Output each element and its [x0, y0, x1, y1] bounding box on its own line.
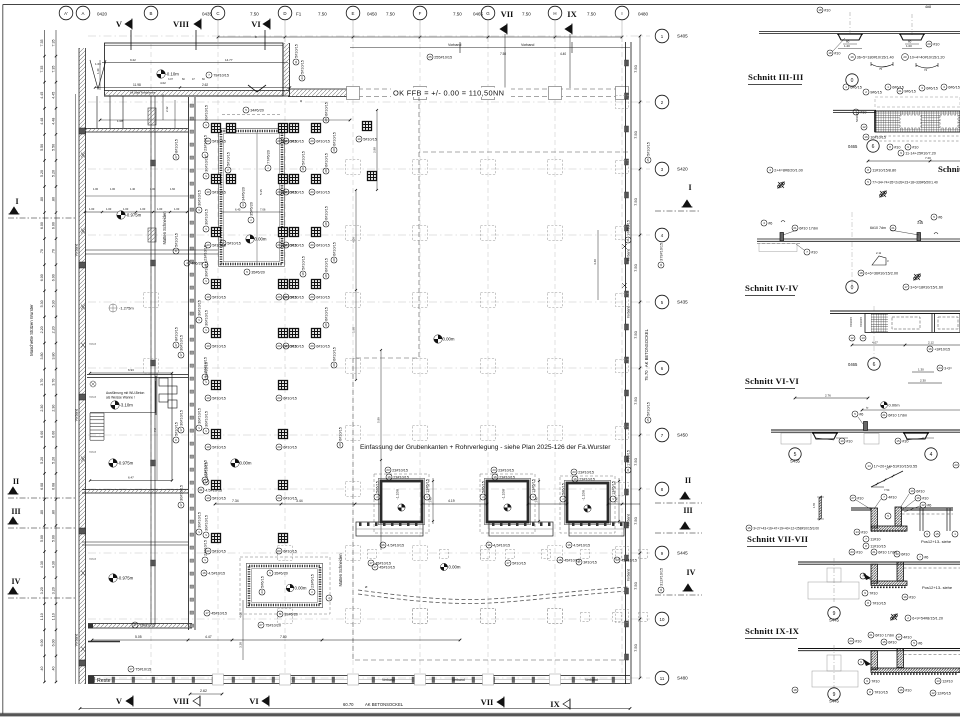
svg-text:7#10: 7#10 — [871, 679, 879, 683]
svg-text:2.62: 2.62 — [200, 689, 207, 693]
S9 centerline — [833, 645, 835, 688]
benchmark 0.00m pit1 — [246, 235, 267, 243]
svg-text:11#10: 11#10 — [870, 537, 880, 541]
svg-text:7#10: 7#10 — [869, 591, 877, 595]
pipe run (dashed) — [358, 587, 628, 600]
benchmark -1.275m — [109, 304, 117, 312]
svg-text:28: 28 — [324, 323, 328, 327]
svg-text:I: I — [15, 197, 18, 206]
svg-text:10: 10 — [206, 344, 210, 348]
svg-text:60: 60 — [846, 40, 850, 44]
S4 label 7 — [804, 249, 818, 255]
svg-text:6#10/15: 6#10/15 — [332, 347, 336, 361]
svg-text:Schnitt: Schnitt — [938, 164, 960, 174]
svg-text:7.50: 7.50 — [633, 396, 638, 405]
svg-text:2.76: 2.76 — [825, 394, 831, 398]
svg-text:16: 16 — [928, 347, 932, 351]
svg-text:23#10/15: 23#10/15 — [578, 470, 594, 474]
svg-text:5.05: 5.05 — [135, 635, 142, 639]
svg-text:S445: S445 — [829, 699, 839, 704]
svg-text:7.50: 7.50 — [587, 12, 596, 17]
svg-text:7.54: 7.54 — [884, 488, 890, 492]
S7 pit section — [851, 507, 871, 509]
svg-text:1.48: 1.48 — [615, 497, 619, 503]
svg-text:312#10/15: 312#10/15 — [659, 568, 663, 586]
svg-text:1.00: 1.00 — [140, 207, 146, 211]
svg-text:6#10 17dm: 6#10 17dm — [799, 226, 818, 230]
svg-text:5#10/15: 5#10/15 — [512, 561, 526, 565]
grid bubbles A'-I (top) — [59, 6, 73, 20]
svg-text:13#6/15: 13#6/15 — [611, 481, 615, 495]
svg-text:13#6/15: 13#6/15 — [531, 479, 535, 493]
svg-text:18: 18 — [859, 271, 863, 275]
svg-text:16: 16 — [916, 496, 920, 500]
svg-text:9: 9 — [833, 611, 836, 617]
svg-text:6#10 7dm: 6#10 7dm — [870, 226, 886, 230]
svg-text:Verband: Verband — [452, 678, 465, 682]
annex right labels — [293, 44, 299, 65]
pit P2 with labels — [240, 557, 330, 614]
svg-text:20: 20 — [338, 443, 342, 447]
svg-text:12#6/15: 12#6/15 — [937, 691, 951, 695]
svg-text:31: 31 — [294, 60, 298, 64]
svg-text:7.50: 7.50 — [633, 516, 638, 525]
svg-text:8#10/15: 8#10/15 — [174, 327, 178, 341]
svg-text:30#10/15: 30#10/15 — [197, 512, 201, 528]
svg-text:9#6/15: 9#6/15 — [904, 89, 916, 93]
S7 label 15 long — [746, 525, 819, 531]
svg-text:77+34+74+35=2x39+23+18+339#6/2: 77+34+74+35=2x39+23+18+339#6/20/1.40 — [872, 180, 938, 184]
svg-text:6.08: 6.08 — [40, 483, 44, 490]
svg-text:6.93: 6.93 — [128, 368, 134, 372]
svg-text:23: 23 — [850, 550, 854, 554]
bottom exterior wall band — [88, 675, 630, 677]
svg-text:20: 20 — [310, 190, 314, 194]
rebar mat labels — [205, 138, 226, 144]
svg-text:Schnitt III-III: Schnitt III-III — [748, 72, 804, 82]
svg-text:Matten Schneiden: Matten Schneiden — [162, 211, 167, 245]
S4 big circle 0 — [846, 281, 858, 293]
svg-text:2.62: 2.62 — [202, 83, 208, 87]
svg-text:45#10/15: 45#10/15 — [379, 565, 395, 569]
svg-text:0.00m: 0.00m — [889, 403, 901, 408]
svg-text:H0608: H0608 — [89, 451, 97, 454]
svg-text:A: A — [82, 11, 85, 16]
svg-text:6#10/15: 6#10/15 — [283, 549, 297, 553]
svg-text:4.40: 4.40 — [593, 259, 597, 265]
svg-text:#10: #10 — [855, 639, 861, 643]
svg-text:0.00m: 0.00m — [255, 237, 267, 242]
svg-text:IX: IX — [550, 699, 560, 709]
S3 label 9 long — [898, 150, 936, 156]
S7b label 2 — [905, 615, 943, 621]
svg-text:10: 10 — [206, 190, 210, 194]
svg-text:0465: 0465 — [848, 362, 858, 367]
partition wall y374 — [87, 374, 188, 376]
svg-text:30#10/15: 30#10/15 — [204, 209, 208, 225]
svg-text:23: 23 — [954, 463, 958, 467]
svg-text:1.00: 1.00 — [110, 187, 116, 191]
svg-text:18: 18 — [793, 688, 797, 692]
svg-text:23: 23 — [386, 468, 390, 472]
svg-text:30#10/15: 30#10/15 — [179, 485, 183, 501]
excavation boundary (dashed) — [353, 96, 628, 660]
svg-text:3.80: 3.80 — [40, 353, 44, 360]
left exterior wall — [79, 48, 86, 684]
wall rebar labels (left) — [202, 135, 208, 158]
svg-text:5: 5 — [794, 452, 797, 458]
page frame top line — [3, 4, 960, 6]
svg-text:20: 20 — [332, 258, 336, 262]
svg-text:Schnitt VII-VII: Schnitt VII-VII — [747, 534, 809, 544]
svg-text:#6: #6 — [918, 641, 922, 645]
svg-text:18: 18 — [828, 51, 832, 55]
svg-text:23#10/15: 23#10/15 — [203, 245, 207, 261]
wall stub x285 — [282, 43, 284, 96]
svg-text:.80: .80 — [40, 510, 44, 515]
svg-text:23#10/15: 23#10/15 — [203, 540, 207, 556]
svg-text:5#10/15: 5#10/15 — [174, 422, 178, 436]
svg-text:5#10/15: 5#10/15 — [212, 496, 226, 500]
svg-text:1.00: 1.00 — [174, 207, 180, 211]
svg-text:17: 17 — [129, 667, 133, 671]
S7 pit inner circle — [885, 513, 891, 519]
svg-text:20: 20 — [310, 139, 314, 143]
left dimension chains — [44, 30, 46, 682]
svg-text:6.00: 6.00 — [52, 222, 56, 229]
svg-text:3.80: 3.80 — [52, 353, 56, 360]
svg-text:9: 9 — [833, 692, 836, 698]
svg-text:6#10/15: 6#10/15 — [324, 258, 328, 272]
row bubbles 1-11 (right) — [655, 29, 669, 43]
svg-text:27: 27 — [259, 623, 263, 627]
svg-text:Matten Schneiden: Matten Schneiden — [338, 553, 343, 587]
S7 big circle 5 — [789, 448, 801, 460]
svg-text:#10: #10 — [909, 595, 915, 599]
bottom labels row — [372, 564, 395, 570]
svg-text:Schnitt IV-IV: Schnitt IV-IV — [745, 283, 799, 293]
svg-text:2.20: 2.20 — [52, 326, 56, 333]
svg-text:D: D — [283, 11, 286, 16]
svg-text:4.5#10/15: 4.5#10/15 — [493, 543, 510, 547]
S3 label cluster — [843, 84, 862, 90]
svg-text:I: I — [688, 183, 691, 192]
S7 label 14 long — [866, 463, 918, 470]
svg-text:2.20: 2.20 — [40, 326, 44, 333]
svg-text:#10: #10 — [824, 8, 830, 12]
svg-text:#10: #10 — [894, 145, 900, 149]
svg-text:VIII: VIII — [173, 696, 190, 706]
svg-text:#6: #6 — [859, 412, 863, 416]
svg-text:5.50: 5.50 — [40, 144, 44, 151]
svg-text:7.50: 7.50 — [500, 52, 506, 56]
svg-text:.80: .80 — [52, 510, 56, 515]
svg-text:0.00m: 0.00m — [443, 337, 455, 342]
svg-text:0465: 0465 — [848, 144, 858, 149]
S3 beam crosshatch — [875, 111, 960, 132]
svg-text:VII: VII — [481, 697, 494, 707]
svg-text:II: II — [685, 476, 691, 485]
svg-text:21: 21 — [199, 488, 203, 492]
svg-text:F: F — [419, 11, 422, 16]
S7 needle symbol — [819, 496, 822, 520]
north arrow — [248, 85, 266, 92]
svg-text:10: 10 — [284, 295, 288, 299]
S3 bug b — [880, 191, 887, 198]
partition wall y128 — [85, 128, 188, 130]
svg-text:7.50: 7.50 — [633, 457, 638, 466]
svg-text:4.19: 4.19 — [448, 499, 455, 503]
svg-text:1.00: 1.00 — [89, 207, 95, 211]
svg-text:.80: .80 — [40, 197, 44, 202]
svg-text:20: 20 — [277, 549, 281, 553]
svg-text:IV: IV — [687, 568, 696, 577]
svg-text:#10: #10 — [861, 530, 867, 534]
svg-text:10: 10 — [206, 496, 210, 500]
S7 top dim — [862, 409, 960, 411]
S3 label 20b — [926, 41, 940, 47]
svg-text:6#10: 6#10 — [888, 640, 896, 644]
svg-text:10: 10 — [284, 243, 288, 247]
svg-text:4#10: 4#10 — [888, 495, 896, 499]
svg-text:7#10/15: 7#10/15 — [874, 690, 888, 694]
svg-text:5#6/15: 5#6/15 — [375, 481, 379, 493]
svg-text:Vorband: Vorband — [627, 249, 631, 261]
svg-text:#6: #6 — [924, 555, 928, 559]
svg-text:18: 18 — [818, 8, 822, 12]
svg-text:3.44: 3.44 — [296, 499, 303, 503]
S3 drain cup right — [900, 34, 924, 40]
svg-text:10#10/15: 10#10/15 — [870, 135, 886, 139]
svg-text:23#10/15: 23#10/15 — [392, 468, 408, 472]
svg-text:5#10/15: 5#10/15 — [212, 549, 226, 553]
pit P1 (top-left machine pit) — [221, 131, 282, 264]
svg-text:75: 75 — [879, 67, 883, 71]
svg-text:1.00: 1.00 — [150, 187, 156, 191]
svg-text:3.70: 3.70 — [52, 379, 56, 386]
shaft cluster — [155, 376, 157, 415]
benchmark -0.975m c — [109, 574, 134, 582]
svg-text:5.20: 5.20 — [52, 457, 56, 464]
svg-text:Verband: Verband — [585, 678, 598, 682]
svg-text:15: 15 — [935, 532, 939, 536]
svg-text:2.42: 2.42 — [165, 106, 169, 112]
S4 leaders — [783, 230, 797, 235]
benchmark 0.00m hall — [434, 335, 455, 343]
svg-text:3+6=18#10/15/1.60: 3+6=18#10/15/1.60 — [910, 285, 943, 289]
S3 big circle 0 — [846, 74, 858, 86]
svg-text:2.30: 2.30 — [52, 405, 56, 412]
svg-text:5#10/15: 5#10/15 — [363, 137, 377, 141]
svg-text:1.00: 1.00 — [93, 187, 99, 191]
svg-text:2.30: 2.30 — [920, 379, 926, 383]
svg-text:18: 18 — [301, 167, 305, 171]
svg-text:17: 17 — [205, 611, 209, 615]
svg-text:#10: #10 — [922, 496, 928, 500]
S3 label 18 — [827, 50, 841, 56]
svg-text:16: 16 — [864, 135, 868, 139]
svg-text:#10: #10 — [912, 145, 918, 149]
svg-text:5#10/15: 5#10/15 — [174, 233, 178, 247]
benchmark -0.975m b — [109, 459, 134, 467]
svg-text:VIII: VIII — [173, 19, 190, 29]
svg-text:0480: 0480 — [638, 12, 649, 17]
svg-text:13: 13 — [861, 336, 865, 340]
svg-text:7#10/15: 7#10/15 — [849, 316, 853, 327]
svg-text:5#10/15: 5#10/15 — [290, 139, 304, 143]
svg-text:7.20: 7.20 — [925, 156, 931, 160]
svg-text:20: 20 — [903, 55, 907, 59]
svg-text:7.80: 7.80 — [280, 635, 287, 639]
svg-text:8#10/15: 8#10/15 — [174, 139, 178, 153]
svg-text:S435: S435 — [677, 300, 688, 305]
svg-text:1.40: 1.40 — [96, 68, 100, 74]
svg-text:4.30: 4.30 — [52, 561, 56, 568]
svg-text:23#10/15: 23#10/15 — [203, 135, 207, 151]
svg-text:T5#10/15: T5#10/15 — [139, 623, 155, 627]
S7b big circle 9 — [828, 607, 840, 619]
svg-text:5.50: 5.50 — [52, 144, 56, 151]
svg-text:.40: .40 — [52, 666, 56, 671]
svg-text:A': A' — [64, 11, 68, 16]
svg-text:T5#10/15: T5#10/15 — [135, 667, 151, 671]
svg-text:H: H — [553, 11, 556, 16]
svg-text:0: 0 — [851, 78, 854, 84]
svg-text:4.5#10/15: 4.5#10/15 — [205, 488, 222, 492]
annex bottom wall band — [104, 90, 290, 92]
svg-text:25: 25 — [646, 418, 650, 422]
svg-text:#10: #10 — [905, 688, 911, 692]
svg-text:7.50: 7.50 — [250, 12, 259, 17]
svg-text:#10: #10 — [860, 110, 866, 114]
svg-text:IV: IV — [12, 577, 21, 586]
S4 label 17 long — [903, 284, 943, 290]
svg-text:20: 20 — [332, 148, 336, 152]
svg-text:11#10/15/8.80: 11#10/15/8.80 — [872, 168, 896, 172]
partition wall y623 — [88, 623, 192, 625]
svg-text:16: 16 — [899, 688, 903, 692]
svg-text:20: 20 — [277, 396, 281, 400]
svg-text:27: 27 — [851, 496, 855, 500]
svg-text:1.90: 1.90 — [352, 327, 356, 333]
S6 short dims — [912, 371, 934, 373]
svg-text:1.40: 1.40 — [130, 187, 136, 191]
S7b labels — [862, 590, 878, 596]
svg-text:23#6/15: 23#6/15 — [310, 574, 314, 588]
svg-text:30#10/15: 30#10/15 — [179, 410, 183, 426]
svg-text:20: 20 — [310, 295, 314, 299]
svg-text:16: 16 — [567, 543, 571, 547]
pit P3 with labels — [374, 474, 429, 533]
S9 labels below — [864, 678, 880, 684]
page frame left line — [2, 5, 4, 717]
svg-text:10: 10 — [284, 139, 288, 143]
S7 row below — [849, 549, 863, 555]
svg-text:21: 21 — [872, 550, 876, 554]
svg-text:7.8: 7.8 — [153, 428, 157, 432]
svg-text:AK BETONSOCKEL: AK BETONSOCKEL — [365, 702, 404, 707]
svg-text:2.30: 2.30 — [40, 405, 44, 412]
svg-text:45#10/15: 45#10/15 — [621, 558, 637, 562]
svg-text:4#6/20: 4#6/20 — [191, 261, 203, 265]
text OK FFB — [391, 88, 511, 98]
svg-text:17+20+14+51#10/15/3.55: 17+20+14+51#10/15/3.55 — [874, 464, 918, 468]
svg-text:#10: #10 — [856, 550, 862, 554]
svg-text:Vorband: Vorband — [521, 43, 534, 47]
svg-text:3+3=: 3+3= — [944, 366, 952, 370]
svg-text:23#10/15: 23#10/15 — [498, 468, 514, 472]
partition wall y542 — [82, 541, 188, 543]
S6 centerline — [873, 306, 875, 370]
svg-text:5#10/15: 5#10/15 — [226, 152, 230, 166]
svg-text:11#10/15: 11#10/15 — [870, 544, 886, 548]
svg-text:6.45: 6.45 — [235, 208, 241, 212]
right exterior wall — [625, 42, 627, 684]
svg-text:75#10/20: 75#10/20 — [265, 623, 281, 627]
svg-text:Vorband: Vorband — [75, 409, 79, 422]
svg-text:#10: #10 — [846, 439, 852, 443]
svg-text:1.55: 1.55 — [812, 502, 816, 508]
svg-text:5.20: 5.20 — [40, 170, 44, 177]
svg-text:S445: S445 — [677, 551, 688, 556]
small dashed squares row y554 — [368, 550, 377, 559]
svg-text:5#10/15: 5#10/15 — [212, 396, 226, 400]
S7 slab line — [771, 429, 960, 431]
svg-text:10: 10 — [910, 489, 914, 493]
svg-text:23#10/15: 23#10/15 — [579, 477, 595, 481]
svg-text:27: 27 — [133, 623, 137, 627]
svg-text:20: 20 — [310, 344, 314, 348]
svg-text:6#10/15: 6#10/15 — [316, 295, 330, 299]
svg-text:Maschette Stützen Wurster: Maschette Stützen Wurster — [29, 304, 34, 356]
svg-text:+3#10/15: +3#10/15 — [934, 347, 950, 351]
svg-text:1.20: 1.20 — [844, 44, 850, 48]
S4 hook symbols — [781, 221, 785, 223]
S3 bug a — [778, 182, 785, 189]
S7 leaders — [856, 500, 872, 510]
svg-text:14: 14 — [855, 530, 859, 534]
svg-text:17: 17 — [179, 353, 183, 357]
svg-text:#10: #10 — [811, 250, 817, 254]
svg-text:5#10/15: 5#10/15 — [301, 151, 305, 165]
S3 label 4 — [767, 167, 803, 173]
svg-text:6#10/15: 6#10/15 — [324, 307, 328, 321]
vertical grid centerlines — [150, 44, 152, 676]
svg-text:6#10/15: 6#10/15 — [283, 396, 297, 400]
svg-text:7.35: 7.35 — [40, 66, 44, 73]
svg-text:6#10: 6#10 — [916, 489, 924, 493]
svg-text:3.07: 3.07 — [168, 78, 173, 81]
svg-text:4#10: 4#10 — [903, 635, 911, 639]
svg-text:IX: IX — [567, 9, 577, 19]
svg-text:35#6/20: 35#6/20 — [251, 270, 265, 274]
bottom overall dimension — [80, 708, 630, 710]
svg-text:.40: .40 — [40, 666, 44, 671]
svg-text:4.06: 4.06 — [352, 237, 356, 243]
svg-text:20: 20 — [277, 139, 281, 143]
svg-text:13: 13 — [615, 558, 619, 562]
S4 labels top — [761, 220, 772, 226]
svg-text:6#6/15: 6#6/15 — [926, 86, 938, 90]
svg-text:5.30: 5.30 — [40, 300, 44, 307]
svg-text:28: 28 — [324, 118, 328, 122]
svg-text:20: 20 — [927, 42, 931, 46]
svg-text:74: 74 — [924, 68, 928, 72]
svg-text:5#10/15: 5#10/15 — [290, 344, 304, 348]
S7 pit labels top — [850, 495, 864, 501]
svg-text:5#10/15: 5#10/15 — [227, 241, 241, 245]
svg-text:4.07: 4.07 — [872, 341, 878, 345]
